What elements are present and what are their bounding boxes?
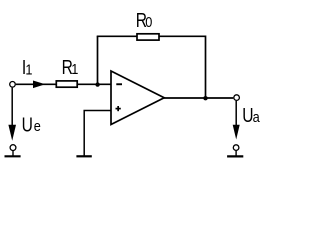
- op-amp inverting pin mark -: [116, 83, 122, 85]
- svg-text:U: U: [242, 104, 253, 126]
- wire: non-inverting input to ground: [84, 111, 111, 156]
- svg-text:e: e: [34, 117, 41, 134]
- label I1: [22, 56, 33, 78]
- svg-text:1: 1: [71, 60, 78, 77]
- label Ue: [22, 113, 42, 135]
- label R1: [62, 56, 79, 78]
- label R0: [136, 9, 153, 31]
- op-amp non-inverting pin mark +: [116, 106, 121, 111]
- wire: feedback right vertical: [205, 36, 207, 99]
- node: junction at output: [203, 96, 207, 100]
- terminal: output node: [234, 95, 240, 101]
- voltage arrow Ue: [8, 88, 16, 141]
- wire: stub to left ground: [12, 151, 14, 156]
- current arrow I1 on input wire: [33, 81, 45, 89]
- terminal: lower left node: [10, 145, 16, 151]
- wire: feedback top horizontal: [97, 35, 206, 37]
- wire: stub to right ground: [235, 151, 237, 156]
- ground (right): [227, 155, 243, 157]
- wire: op-amp output: [163, 97, 233, 99]
- wire: feedback left vertical: [97, 36, 99, 84]
- node: junction at inverting input: [95, 82, 99, 86]
- svg-text:1: 1: [25, 60, 32, 77]
- svg-text:0: 0: [145, 13, 152, 30]
- wire: input node to R1 (inverting input net): [16, 83, 57, 85]
- svg-text:U: U: [22, 113, 33, 135]
- ground (left): [5, 155, 21, 157]
- ground (middle, non-inverting input): [76, 155, 91, 157]
- svg-text:a: a: [253, 108, 260, 125]
- resistor R1: [56, 81, 77, 87]
- terminal: input node: [10, 82, 16, 88]
- resistor R0: [137, 34, 159, 40]
- terminal: lower right node: [233, 145, 239, 151]
- label Ua: [242, 104, 260, 126]
- op-amp U1: [111, 71, 164, 125]
- voltage arrow Ua: [233, 101, 240, 140]
- wire: R1 to op-amp inverting input: [77, 83, 111, 85]
